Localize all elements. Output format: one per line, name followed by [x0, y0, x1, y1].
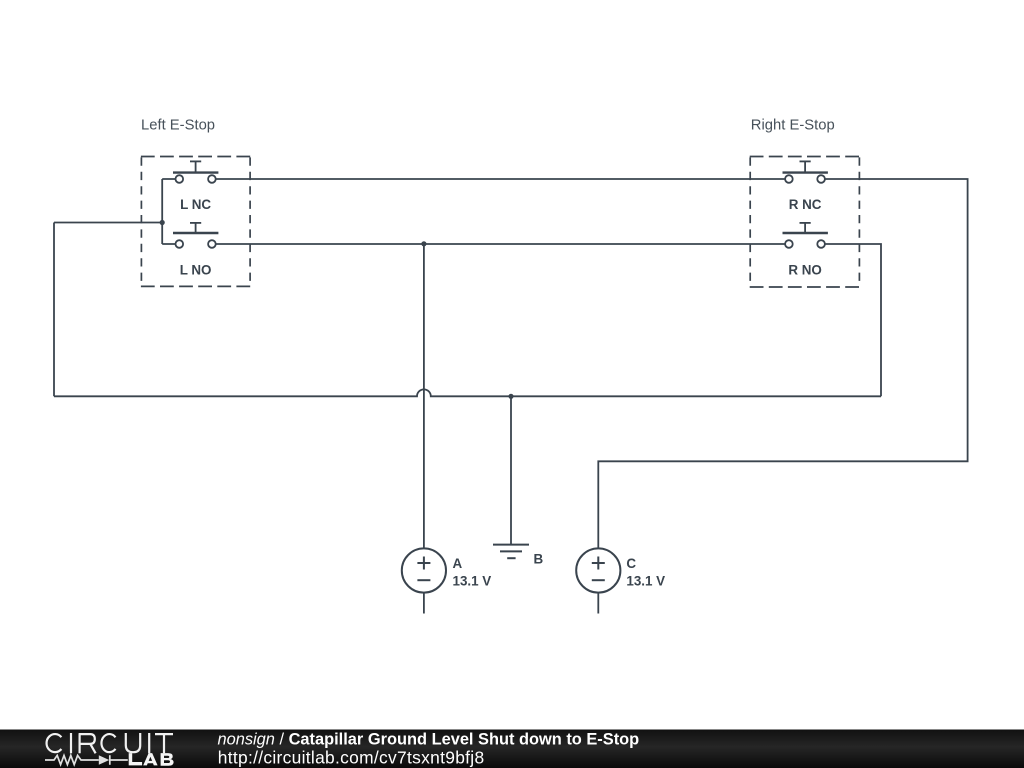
svg-text:L NC: L NC [180, 197, 211, 212]
svg-text:Left E-Stop: Left E-Stop [141, 118, 215, 134]
svg-text:13.1 V: 13.1 V [453, 573, 492, 588]
svg-text:C: C [626, 556, 636, 571]
svg-text:nonsign / Catapillar Ground Le: nonsign / Catapillar Ground Level Shut d… [218, 731, 640, 749]
svg-text:B: B [534, 552, 544, 567]
svg-text:Right E-Stop: Right E-Stop [751, 118, 835, 134]
svg-text:R NO: R NO [788, 263, 821, 278]
svg-text:R NC: R NC [789, 197, 822, 212]
svg-text:13.1 V: 13.1 V [626, 573, 665, 588]
svg-text:L NO: L NO [180, 263, 212, 278]
svg-text:A: A [453, 556, 463, 571]
svg-text:http://circuitlab.com/cv7tsxnt: http://circuitlab.com/cv7tsxnt9bfj8 [218, 748, 485, 768]
